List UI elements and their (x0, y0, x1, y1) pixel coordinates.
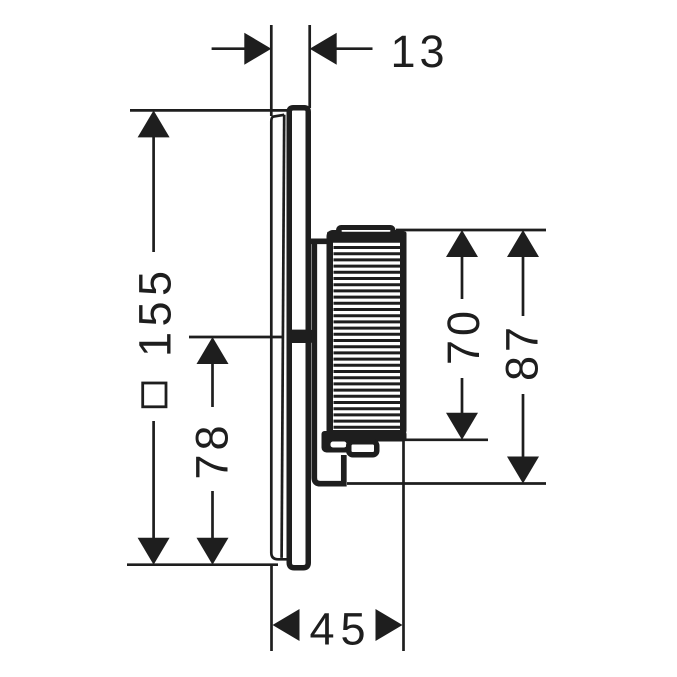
svg-text:45: 45 (309, 604, 371, 655)
svg-text:70: 70 (438, 307, 489, 365)
svg-text:155: 155 (130, 265, 181, 357)
svg-text:13: 13 (390, 26, 448, 77)
svg-text:87: 87 (497, 323, 548, 381)
svg-text:78: 78 (187, 421, 238, 479)
